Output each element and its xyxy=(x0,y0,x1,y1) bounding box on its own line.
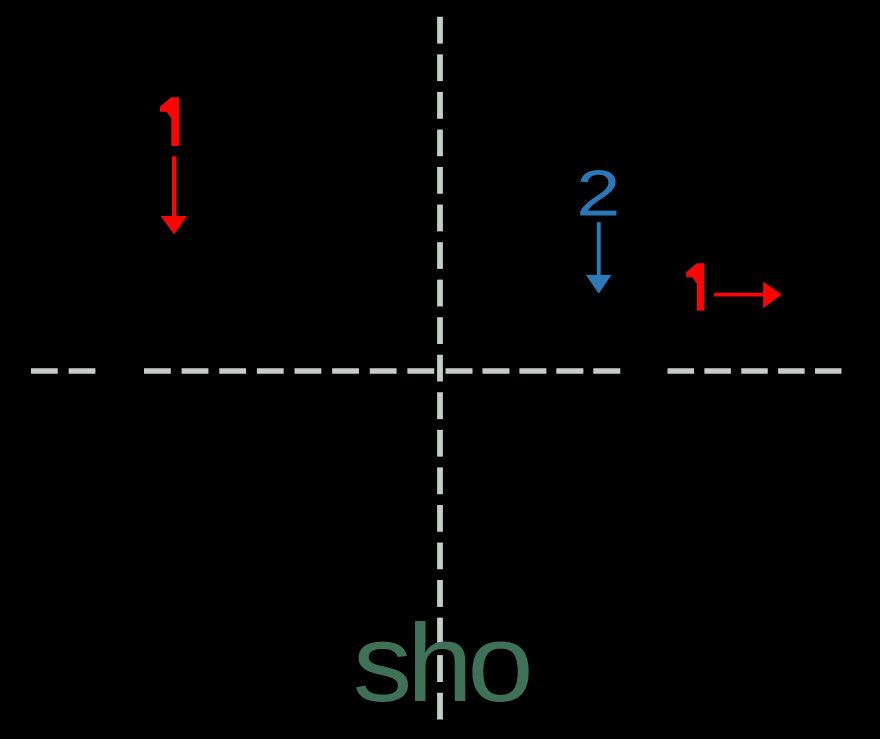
horizontal dashed line segment C (right of center) xyxy=(446,368,621,374)
label 1 (red, upper left) xyxy=(160,97,179,146)
label 1 (red, right) xyxy=(686,263,704,310)
horizontal dashed line segment D (far right) xyxy=(668,368,842,374)
svg-text:2: 2 xyxy=(576,158,620,230)
horizontal dashed line segment A (far left) xyxy=(31,368,95,374)
red down arrow (left) xyxy=(161,156,187,234)
red right arrow xyxy=(714,282,782,309)
svg-text:sho: sho xyxy=(353,602,530,725)
blue down arrow xyxy=(586,222,612,293)
horizontal dashed line segment B (left of center) xyxy=(144,368,434,374)
vertical dashed center line xyxy=(437,17,443,720)
